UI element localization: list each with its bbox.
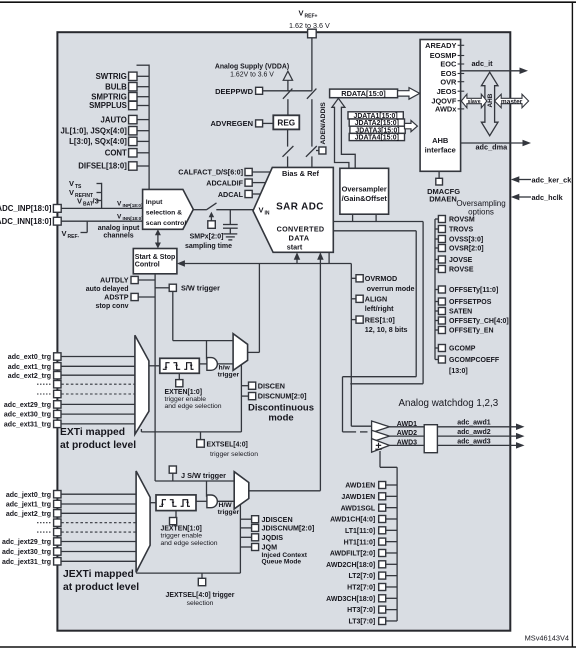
input pin ADC_INN[18:0] bbox=[0, 217, 143, 226]
svg-text:V: V bbox=[259, 206, 264, 215]
power pin VREF+ bbox=[289, 9, 330, 38]
control bit EXTSEL[4:0] bbox=[197, 432, 258, 458]
control bit AWD1EN bbox=[345, 482, 397, 490]
label EXTi mapped at product level bbox=[60, 427, 136, 451]
svg-text:V: V bbox=[69, 179, 74, 188]
svg-text:ADSTP: ADSTP bbox=[104, 293, 129, 302]
svg-text:trigger enable: trigger enable bbox=[161, 533, 203, 540]
svg-text:Input: Input bbox=[146, 199, 163, 206]
EXTi trigger mux bbox=[135, 335, 149, 434]
svg-text:OFFSETy_EN: OFFSETy_EN bbox=[449, 328, 494, 335]
svg-text:ADCALDIF: ADCALDIF bbox=[206, 178, 243, 187]
control bit JEXTSEL[4:0] bbox=[166, 573, 235, 607]
trigger input (elided rows) bbox=[37, 381, 135, 388]
comparator AWD2 bbox=[372, 430, 418, 442]
trigger input adc_ext29_trg bbox=[4, 401, 135, 409]
node VTS bbox=[69, 179, 102, 190]
svg-text:GCOMPCOEFF: GCOMPCOEFF bbox=[449, 357, 500, 364]
wire SAR converted data to start line bbox=[328, 252, 330, 263]
control bit JDISCNUM[2:0] bbox=[240, 524, 314, 533]
register JDATA4[15:0] bbox=[349, 133, 404, 141]
gate h/w trigger bbox=[199, 358, 239, 379]
wire start to SAR bbox=[294, 252, 301, 263]
svg-text:SATEN: SATEN bbox=[449, 309, 472, 316]
svg-text:AWDFILT[2:0]: AWDFILT[2:0] bbox=[330, 551, 375, 558]
control bit L[3:0], SQx[4:0] bbox=[69, 137, 149, 146]
label VINN[18:0] bbox=[117, 213, 143, 221]
control bit DISCEN bbox=[241, 381, 285, 390]
ground bbox=[223, 234, 237, 240]
svg-text:TROVS: TROVS bbox=[449, 227, 473, 234]
signal adc_it bbox=[461, 59, 528, 74]
control bits bus wire bbox=[137, 65, 150, 190]
wire regular trigger box bottom bbox=[141, 429, 241, 432]
register JDATA2[15:0] bbox=[349, 119, 404, 127]
svg-text:AWDx: AWDx bbox=[435, 105, 457, 114]
svg-text:left/right: left/right bbox=[365, 304, 394, 313]
switch VDDA deep-power-down bbox=[283, 89, 293, 99]
svg-text:REF-: REF- bbox=[68, 234, 80, 240]
control bit CONT bbox=[105, 149, 149, 158]
svg-text:adc_jext0_trg: adc_jext0_trg bbox=[6, 492, 51, 499]
svg-text:stop conv: stop conv bbox=[95, 303, 128, 310]
watchdog sync block bbox=[424, 425, 437, 453]
capacitor sampling bbox=[223, 210, 238, 234]
control bit GCOMPCOEFF bbox=[435, 356, 500, 364]
svg-text:V: V bbox=[69, 188, 74, 197]
voltage regulator REG bbox=[273, 115, 299, 129]
wire injected trigger box right edge and bottom bbox=[136, 505, 240, 573]
control bit ADSTP bbox=[95, 293, 155, 310]
svg-text:SMPTRIG: SMPTRIG bbox=[91, 92, 127, 101]
svg-text:DISCNUM[2:0]: DISCNUM[2:0] bbox=[258, 392, 307, 401]
svg-text:SMPPLUS: SMPPLUS bbox=[89, 101, 127, 110]
svg-text:HT3[7:0]: HT3[7:0] bbox=[347, 607, 375, 614]
injected trigger output mux bbox=[234, 472, 249, 509]
control bit JAWD1EN bbox=[341, 493, 397, 501]
svg-text:REF+: REF+ bbox=[305, 14, 318, 20]
control bit SMPTRIG bbox=[91, 92, 149, 101]
wire SAR to oversampler feedback loop bbox=[333, 214, 423, 384]
svg-text:BULB: BULB bbox=[105, 82, 127, 91]
trigger input adc_jext29_trg bbox=[2, 538, 136, 546]
svg-text:HT2[7:0]: HT2[7:0] bbox=[347, 585, 375, 592]
wire scan control to sampling switch bbox=[193, 209, 206, 211]
svg-text:JEXTi mapped: JEXTi mapped bbox=[63, 569, 134, 580]
svg-text:and edge selection: and edge selection bbox=[161, 540, 218, 547]
svg-text:Start & Stop: Start & Stop bbox=[135, 254, 175, 261]
svg-text:AWD1EN: AWD1EN bbox=[345, 483, 375, 490]
input pin ADC_INP[18:0] bbox=[0, 204, 143, 213]
control bit ADCALDIF bbox=[206, 178, 265, 187]
svg-text:adc_hclk: adc_hclk bbox=[532, 193, 564, 202]
wire regular trigger box right edge bbox=[240, 365, 242, 432]
svg-text:Control: Control bbox=[135, 261, 160, 268]
svg-text:RES[1:0]: RES[1:0] bbox=[365, 315, 395, 324]
trigger input (elided rows) bbox=[37, 528, 136, 535]
svg-text:LT1[11:0]: LT1[11:0] bbox=[345, 528, 375, 535]
svg-text:DATA: DATA bbox=[288, 234, 309, 243]
svg-text:CALFACT_D/S[6:0]: CALFACT_D/S[6:0] bbox=[178, 168, 243, 177]
svg-text:DIFSEL[18:0]: DIFSEL[18:0] bbox=[78, 162, 127, 171]
wire regular trigger to start bbox=[248, 264, 260, 353]
trigger input adc_jext2_trg bbox=[6, 510, 136, 518]
svg-text:V: V bbox=[77, 197, 82, 206]
svg-text:trigger selection: trigger selection bbox=[210, 451, 258, 458]
register RDATA[15:0] bbox=[330, 89, 398, 98]
signal adc_dma bbox=[461, 140, 531, 152]
switch regulator ADEN bbox=[283, 146, 294, 157]
wire regulator to bias bbox=[287, 129, 289, 167]
label Oversampling options bbox=[456, 199, 505, 216]
svg-text:[13:0]: [13:0] bbox=[449, 368, 468, 375]
svg-text:GCOMP: GCOMP bbox=[449, 346, 476, 353]
control bit SATEN bbox=[435, 308, 472, 316]
svg-text:Analog watchdog 1,2,3: Analog watchdog 1,2,3 bbox=[399, 398, 499, 409]
svg-text:/Gain&Offset: /Gain&Offset bbox=[342, 194, 388, 203]
control bit SWTRIG bbox=[96, 72, 149, 81]
control bit CALFACT_D/S[6:0] bbox=[178, 168, 270, 177]
wire injected trigger to start bbox=[249, 252, 324, 490]
register JDATA1[15:0] bbox=[348, 112, 403, 120]
node VREFINT bbox=[69, 188, 102, 199]
svg-text:MSv46143V4: MSv46143V4 bbox=[525, 634, 569, 643]
control node ADEN/ADDIS bbox=[316, 102, 327, 154]
svg-text:Queue Mode: Queue Mode bbox=[262, 559, 302, 566]
wire scan control to start-stop double arrow bbox=[155, 229, 161, 248]
trigger input (elided rows) bbox=[37, 390, 135, 397]
control bit GCOMP bbox=[435, 345, 476, 353]
control bit AWD1CH[4:0] bbox=[330, 516, 397, 524]
wire S/W trigger to regular mux bbox=[173, 291, 233, 359]
control bit BULB bbox=[105, 82, 149, 91]
control bit AWD3CH[18:0] bbox=[326, 595, 397, 603]
svg-text:ADC_INP[18:0]: ADC_INP[18:0] bbox=[0, 204, 52, 213]
svg-text:CONT: CONT bbox=[105, 149, 127, 158]
svg-text:OVR: OVR bbox=[440, 77, 457, 86]
svg-text:ROVSM: ROVSM bbox=[449, 217, 475, 224]
control bit LT2[7:0] bbox=[348, 572, 397, 580]
svg-text:adc_ext29_trg: adc_ext29_trg bbox=[4, 402, 51, 409]
svg-text:AHB: AHB bbox=[432, 136, 449, 145]
wire JEXTi mux to edge selector bbox=[150, 502, 156, 504]
svg-text:V: V bbox=[117, 201, 122, 208]
svg-text:TS: TS bbox=[75, 184, 82, 190]
svg-text:ALIGN: ALIGN bbox=[365, 295, 387, 304]
control bit OFFSETy[11:0] bbox=[435, 286, 498, 294]
svg-text:adc_jext2_trg: adc_jext2_trg bbox=[6, 511, 51, 518]
svg-text:ADEN/ADDIS: ADEN/ADDIS bbox=[320, 102, 327, 145]
svg-text:OFFSETy[11:0]: OFFSETy[11:0] bbox=[449, 287, 498, 294]
trigger input (elided rows) bbox=[37, 519, 136, 526]
regular trigger output mux bbox=[233, 334, 248, 371]
wire VREF+ supply bbox=[311, 38, 313, 168]
svg-text:REG: REG bbox=[277, 119, 295, 128]
wire AWD outputs bbox=[390, 427, 517, 446]
port master bbox=[495, 94, 529, 108]
svg-text:EXTSEL[4:0]: EXTSEL[4:0] bbox=[207, 441, 248, 448]
wire SAR data to watchdog bbox=[333, 231, 416, 432]
svg-text:AUTDLY: AUTDLY bbox=[100, 276, 129, 285]
svg-text:DEEPPWD: DEEPPWD bbox=[215, 87, 254, 96]
control bit DMACFG DMAEN bbox=[427, 171, 460, 203]
wire trigger collector vertical bbox=[154, 274, 156, 432]
trigger input adc_ext1_trg bbox=[8, 363, 135, 371]
trigger input adc_jext30_trg bbox=[2, 548, 136, 556]
control bit OFFSETy_EN bbox=[435, 327, 494, 335]
svg-text:selection: selection bbox=[187, 600, 214, 607]
control bit JL[1:0], JSQx[4:0] bbox=[61, 126, 150, 135]
svg-text:12, 10, 8 bits: 12, 10, 8 bits bbox=[365, 325, 408, 334]
control bit SMPx[2:0] bbox=[185, 212, 232, 250]
svg-text:scan control: scan control bbox=[146, 220, 187, 227]
label JEXTEN[1:0] trigger enable and edge selection bbox=[161, 525, 218, 547]
JEXTi trigger mux bbox=[136, 471, 150, 572]
clock input adc_hclk bbox=[511, 193, 564, 202]
trigger input adc_ext2_trg bbox=[8, 372, 135, 380]
trigger input adc_ext30_trg bbox=[4, 410, 135, 418]
svg-text:S/W trigger: S/W trigger bbox=[181, 283, 220, 292]
control bit AUTDLY bbox=[86, 276, 155, 293]
label VINP[18:0] bbox=[117, 201, 143, 209]
svg-text:J S/W trigger: J S/W trigger bbox=[181, 471, 226, 480]
SAR ADC converter bbox=[253, 167, 333, 252]
oversampler gain offset block bbox=[340, 168, 389, 214]
svg-text:JOVSE: JOVSE bbox=[449, 257, 473, 264]
svg-text:ROVSE: ROVSE bbox=[449, 267, 474, 274]
svg-text:sampling time: sampling time bbox=[185, 243, 232, 250]
svg-text:JAUTO: JAUTO bbox=[101, 115, 127, 124]
svg-text:JL[1:0], JSQx[4:0]: JL[1:0], JSQx[4:0] bbox=[61, 126, 128, 135]
control bit JDISCEN bbox=[240, 515, 292, 524]
control bit LT1[11:0] bbox=[345, 527, 397, 535]
svg-text:ADC_INN[18:0]: ADC_INN[18:0] bbox=[0, 217, 52, 226]
control bit TROVS bbox=[435, 226, 473, 234]
svg-text:adc_dma: adc_dma bbox=[476, 142, 509, 151]
svg-text:V: V bbox=[299, 9, 304, 18]
wire start line to watchdog bbox=[351, 425, 371, 427]
svg-text:AWD1SGL: AWD1SGL bbox=[341, 505, 376, 512]
control bit AWDFILT[2:0] bbox=[330, 550, 397, 558]
port slave bbox=[461, 94, 487, 108]
label JEXTi mapped at product level bbox=[63, 569, 139, 593]
svg-text:IN: IN bbox=[265, 211, 270, 217]
svg-text:1.62 to 3.6 V: 1.62 to 3.6 V bbox=[289, 21, 330, 30]
svg-text:AWD2CH[18:0]: AWD2CH[18:0] bbox=[326, 562, 375, 569]
svg-text:AREADY: AREADY bbox=[425, 41, 456, 50]
label [13:0] bbox=[449, 368, 468, 375]
svg-text:OVSS[3:0]: OVSS[3:0] bbox=[449, 237, 483, 244]
label Discontinuous mode bbox=[248, 403, 314, 424]
control bit HT3[7:0] bbox=[347, 606, 397, 614]
node VBAT/3 bbox=[77, 197, 102, 208]
trigger input adc_jext1_trg bbox=[6, 500, 136, 508]
wire EXTi mux to edge selector bbox=[149, 365, 160, 367]
svg-text:adc_awd2: adc_awd2 bbox=[457, 429, 491, 436]
svg-text:adc_ext0_trg: adc_ext0_trg bbox=[8, 354, 51, 361]
injected trigger edge selector JEXTEN bbox=[156, 495, 196, 525]
wire S/W to injected section bbox=[155, 432, 234, 497]
svg-text:mode: mode bbox=[268, 413, 293, 424]
control bit HT2[7:0] bbox=[347, 584, 397, 592]
svg-text:at product level: at product level bbox=[60, 440, 136, 451]
svg-text:Analog Supply (VDDA): Analog Supply (VDDA) bbox=[215, 63, 289, 70]
control bit JQM bbox=[240, 543, 277, 552]
switch VREF+ ADEN bbox=[306, 146, 317, 157]
svg-text:JDATA4[15:0]: JDATA4[15:0] bbox=[355, 135, 399, 142]
control bit JQDIS bbox=[240, 533, 283, 542]
control bit JOVSE bbox=[435, 256, 473, 264]
wire VDDA to regulator bbox=[287, 99, 289, 115]
node S/W trigger bbox=[155, 283, 220, 292]
svg-text:JQDIS: JQDIS bbox=[262, 533, 284, 542]
svg-text:EOC: EOC bbox=[440, 60, 457, 69]
svg-text:overrun mode: overrun mode bbox=[367, 284, 415, 293]
comparator AWD1 bbox=[372, 421, 418, 433]
svg-text:LT2[7:0]: LT2[7:0] bbox=[348, 573, 375, 580]
control bit AWD2CH[18:0] bbox=[326, 561, 397, 569]
node VIN bbox=[259, 206, 270, 217]
gate H/W trigger injected bbox=[196, 495, 239, 516]
wire start line bbox=[177, 260, 351, 426]
svg-text:adc_ext30_trg: adc_ext30_trg bbox=[4, 412, 51, 419]
svg-text:OVRMOD: OVRMOD bbox=[365, 274, 397, 283]
label EXTEN[1:0] trigger enable and edge selection bbox=[165, 389, 222, 410]
svg-text:adc_ker_ck: adc_ker_ck bbox=[532, 175, 573, 184]
AHB interface block bbox=[420, 40, 464, 172]
svg-text:AWD3CH[18:0]: AWD3CH[18:0] bbox=[326, 596, 375, 603]
register JDATA3[15:0] bbox=[350, 126, 405, 134]
svg-text:RDATA[15:0]: RDATA[15:0] bbox=[341, 89, 386, 98]
control bit RES[1:0] bbox=[351, 315, 407, 334]
svg-text:trigger: trigger bbox=[218, 509, 240, 516]
svg-text:ADCAL: ADCAL bbox=[218, 190, 244, 199]
regular trigger edge selector EXTEN bbox=[160, 358, 200, 387]
svg-text:INP[18:0]: INP[18:0] bbox=[123, 203, 143, 208]
svg-text:adc_ext1_trg: adc_ext1_trg bbox=[8, 364, 51, 371]
svg-text:adc_it: adc_it bbox=[472, 59, 494, 68]
svg-text:AWD1CH[4:0]: AWD1CH[4:0] bbox=[330, 517, 375, 524]
svg-text:JQM: JQM bbox=[262, 543, 278, 552]
control bit AWD1SGL bbox=[341, 504, 398, 512]
svg-text:AHB: AHB bbox=[487, 93, 494, 107]
svg-text:CONVERTED: CONVERTED bbox=[277, 224, 325, 233]
svg-text:adc_jext30_trg: adc_jext30_trg bbox=[2, 549, 51, 556]
control bit ROVSE bbox=[435, 266, 474, 274]
wire sampling switch to VIN bbox=[216, 209, 253, 211]
svg-text:INN[18:0]: INN[18:0] bbox=[123, 216, 144, 221]
label MSv46143V4 bbox=[525, 634, 569, 643]
svg-text:V: V bbox=[117, 213, 122, 220]
svg-text:HT1[11:0]: HT1[11:0] bbox=[344, 539, 376, 546]
svg-text:DMAEN: DMAEN bbox=[429, 195, 457, 204]
bus arrow RDATA to AHB bbox=[398, 88, 420, 100]
svg-text:options: options bbox=[468, 207, 494, 216]
comparator AWD3 bbox=[372, 439, 418, 453]
svg-text:channels: channels bbox=[103, 232, 133, 239]
svg-text:analog input: analog input bbox=[98, 225, 140, 232]
clock input adc_ker_ck bbox=[511, 175, 572, 184]
bus arrow oversampler to data registers bbox=[332, 98, 355, 168]
svg-text:JEOS: JEOS bbox=[437, 87, 457, 96]
control bit DEEPPWD bbox=[215, 87, 312, 96]
svg-text:SAR ADC: SAR ADC bbox=[276, 201, 324, 212]
trigger input adc_ext0_trg bbox=[8, 353, 135, 361]
bus arrow JDATA to AHB bbox=[405, 121, 418, 132]
svg-text:SMPx[2:0]: SMPx[2:0] bbox=[190, 233, 224, 240]
control bit OVRMOD bbox=[351, 274, 414, 293]
svg-text:LT3[7:0]: LT3[7:0] bbox=[348, 619, 375, 626]
trigger input adc_jext31_trg bbox=[2, 558, 136, 566]
svg-text:interface: interface bbox=[425, 146, 456, 155]
control bit DIFSEL[18:0] bbox=[78, 162, 149, 171]
svg-text:start: start bbox=[287, 243, 303, 252]
control bit SMPPLUS bbox=[89, 101, 149, 110]
svg-text:V: V bbox=[62, 229, 67, 238]
svg-text:OVSR[2:0]: OVSR[2:0] bbox=[449, 246, 484, 253]
svg-text:selection &: selection & bbox=[146, 209, 182, 216]
svg-text:OFFSETPOS: OFFSETPOS bbox=[449, 299, 492, 306]
svg-text:JDISCEN: JDISCEN bbox=[262, 515, 293, 524]
svg-text:adc_jext29_trg: adc_jext29_trg bbox=[2, 539, 51, 546]
svg-text:BAT: BAT bbox=[83, 202, 93, 208]
svg-text:JDISCNUM[2:0]: JDISCNUM[2:0] bbox=[262, 524, 315, 533]
control bit OVSR[2:0] bbox=[435, 245, 484, 253]
svg-text:and edge selection: and edge selection bbox=[165, 403, 222, 410]
wire config collector bbox=[434, 219, 436, 360]
svg-text:JEXTSEL[4:0] trigger: JEXTSEL[4:0] trigger bbox=[166, 592, 235, 599]
control bit OFFSETPOS bbox=[435, 298, 492, 306]
control bit OFFSETy_CH[4:0] bbox=[435, 317, 509, 325]
control bit ADCAL bbox=[218, 190, 261, 199]
control bit HT1[11:0] bbox=[344, 538, 397, 546]
input selection and scan control block bbox=[143, 189, 194, 229]
wire watchdog config bus bbox=[380, 451, 397, 621]
control bit ROVSM bbox=[435, 216, 475, 224]
control bit LT3[7:0] bbox=[348, 618, 397, 626]
svg-text:EXTi mapped: EXTi mapped bbox=[60, 427, 125, 438]
signal adc_awd3 bbox=[457, 438, 524, 448]
svg-text:master: master bbox=[501, 98, 523, 105]
svg-text:L[3:0], SQx[4:0]: L[3:0], SQx[4:0] bbox=[69, 137, 127, 146]
start and stop control block bbox=[133, 249, 177, 274]
control bit DISCNUM[2:0] bbox=[241, 392, 306, 401]
node VREF- bbox=[62, 221, 88, 240]
signal adc_awd2 bbox=[457, 429, 524, 439]
control bit OVSS[3:0] bbox=[435, 236, 483, 244]
svg-text:adc_jext1_trg: adc_jext1_trg bbox=[6, 502, 51, 509]
control bit ALIGN bbox=[351, 295, 394, 314]
bus AHB vertical arrow bbox=[481, 72, 498, 136]
svg-text:ADVREGEN: ADVREGEN bbox=[210, 119, 253, 128]
switch sampling bbox=[206, 203, 216, 210]
svg-text:JAWD1EN: JAWD1EN bbox=[341, 494, 375, 501]
control bit ADVREGEN bbox=[210, 119, 273, 128]
ADC block outline U1 bbox=[57, 32, 510, 631]
svg-text:adc_awd3: adc_awd3 bbox=[457, 438, 491, 445]
svg-text:at product level: at product level bbox=[63, 582, 139, 593]
wire internal channels bracket bbox=[101, 183, 103, 209]
signal adc_awd1 bbox=[457, 420, 524, 430]
svg-text:adc_jext31_trg: adc_jext31_trg bbox=[2, 559, 51, 566]
svg-text:trigger: trigger bbox=[218, 371, 240, 378]
trigger input adc_jext0_trg bbox=[6, 491, 136, 499]
svg-text:adc_awd1: adc_awd1 bbox=[457, 420, 491, 427]
svg-text:Oversampler: Oversampler bbox=[342, 185, 387, 194]
svg-text:adc_ext31_trg: adc_ext31_trg bbox=[4, 422, 51, 429]
svg-text:OFFSETy_CH[4:0]: OFFSETy_CH[4:0] bbox=[449, 318, 509, 325]
trigger input adc_ext31_trg bbox=[4, 420, 135, 428]
